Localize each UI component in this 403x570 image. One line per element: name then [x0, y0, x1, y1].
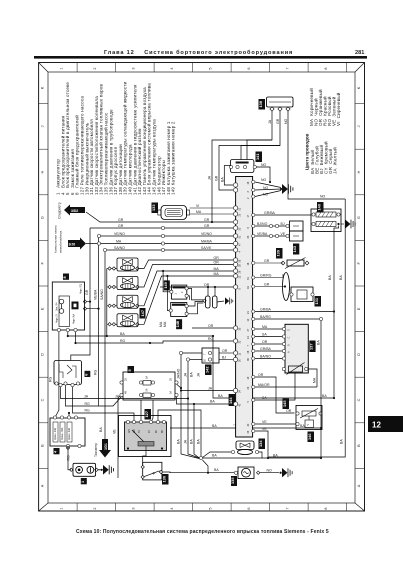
svg-text:3B: 3B — [170, 378, 173, 381]
svg-text:BA: BA — [300, 424, 305, 428]
svg-text:SA/VE: SA/VE — [201, 246, 212, 250]
fuel pump relay 127 — [119, 416, 172, 457]
svg-text:RG: RG — [208, 337, 214, 341]
arrow 3/D2 to speedometer — [64, 205, 85, 216]
svg-text:GR/BA: GR/BA — [264, 211, 276, 215]
svg-text:140: 140 — [317, 204, 322, 211]
svg-text:NO: NO — [261, 163, 267, 167]
label 144 — [229, 394, 236, 406]
svg-text:W1: W1 — [128, 429, 131, 433]
svg-text:GR: GR — [276, 118, 280, 124]
svg-text:E: E — [41, 307, 45, 310]
svg-text:B: B — [41, 444, 45, 447]
svg-text:BA: BA — [340, 439, 344, 444]
frame coordinate numbers bottom — [60, 507, 329, 509]
node BA relay row — [235, 426, 238, 429]
svg-text:NO: NO — [320, 194, 326, 198]
vertical wire SA/NO — [104, 252, 106, 413]
svg-text:RG: RG — [66, 455, 70, 461]
svg-text:C: C — [288, 337, 291, 339]
label 143 — [293, 244, 299, 255]
injector bus to BA wire — [106, 324, 108, 336]
svg-text:JA: JA — [84, 394, 89, 398]
svg-text:GR: GR — [118, 218, 124, 222]
svg-text:MA/BA: MA/BA — [201, 239, 213, 243]
svg-text:OR: OR — [214, 256, 220, 260]
label injectors 147 — [140, 308, 146, 319]
vertical wire BA fuse5 lower — [194, 404, 200, 459]
svg-text:GR: GR — [264, 259, 270, 263]
label 137 — [309, 341, 315, 353]
wire from fuse box 8 to battery fuse box right — [68, 413, 70, 418]
svg-text:RG: RG — [120, 339, 126, 343]
svg-text:MA: MA — [214, 267, 220, 271]
node SA/NO start — [103, 248, 106, 251]
svg-text:2: 2 — [93, 67, 97, 69]
svg-text:D: D — [357, 353, 361, 356]
svg-text:Черн./7Q: Черн./7Q — [80, 284, 83, 294]
wire OR coil feed — [160, 286, 234, 288]
wire BA bus — [68, 332, 213, 336]
wire MA injector 4 — [139, 276, 234, 324]
wire GR/BA east — [255, 311, 334, 313]
main ground symbol — [280, 188, 282, 190]
svg-text:RG: RG — [49, 376, 53, 382]
svg-text:134: 134 — [258, 440, 263, 447]
svg-text:1: 1 — [60, 507, 64, 509]
label 145 — [283, 399, 290, 410]
fuse box 8 — [52, 282, 84, 330]
svg-text:H: H — [357, 170, 361, 173]
svg-text:JA: JA — [184, 439, 188, 444]
component legend list (rotated) — [56, 81, 176, 195]
power fuse box 4 — [50, 418, 85, 446]
suppression capacitor bars — [206, 296, 225, 308]
svg-text:139: 139 — [276, 249, 281, 256]
svg-text:GR/BA: GR/BA — [260, 307, 272, 311]
svg-text:C: C — [357, 398, 361, 401]
wire colour legend column 2 (MA..VI) — [308, 88, 341, 126]
svg-text:GR/RG: GR/RG — [260, 273, 272, 277]
ECU right pins — [252, 180, 255, 432]
air temperature sensor 145 — [296, 406, 322, 430]
label 149 — [164, 280, 170, 290]
inline connector pairs — [161, 226, 164, 229]
coil ground — [225, 297, 233, 304]
svg-text:JA: JA — [184, 372, 188, 377]
svg-text:GR: GR — [204, 218, 210, 222]
label 4 — [54, 448, 60, 454]
AC control panel 143 — [290, 221, 304, 241]
throttle body wires — [255, 329, 317, 413]
wire junction to purge valve — [203, 452, 232, 458]
svg-text:W2: W2 — [133, 429, 136, 433]
wire SA/NO — [107, 249, 234, 251]
frame right strip ticks — [355, 104, 365, 469]
svg-text:131: 131 — [314, 297, 319, 304]
wire BA to pin 43 — [177, 397, 236, 404]
svg-text:G: G — [41, 216, 45, 219]
frame coordinate letters left — [41, 86, 45, 487]
ignition coil 148b — [171, 303, 187, 317]
coolant temperature sensor 139 — [255, 258, 309, 269]
ignition coil 149 — [171, 285, 186, 299]
wire relay output to inertia switch — [143, 453, 146, 466]
svg-text:MA/OR: MA/OR — [258, 383, 270, 387]
svg-text:145: 145 — [282, 400, 287, 407]
label 140 — [317, 202, 324, 213]
svg-text:VE: VE — [262, 420, 267, 424]
svg-text:JA/NO: JA/NO — [177, 368, 181, 379]
svg-text:3/D1: 3/D1 — [104, 443, 108, 450]
svg-text:NO: NO — [284, 118, 288, 124]
power steering pressure switch 141 — [230, 160, 254, 173]
frame coordinate letters right — [357, 86, 361, 487]
svg-text:VE: VE — [281, 232, 286, 236]
vehicle speed sensor 131 — [255, 273, 313, 302]
wire MA from immobilizer lamp — [86, 243, 234, 245]
svg-text:127: 127 — [144, 411, 149, 418]
injector 1 — [107, 258, 139, 271]
svg-text:BA: BA — [120, 332, 125, 336]
injector 3 — [107, 295, 139, 308]
svg-text:JA: JA — [115, 394, 120, 398]
knock sensor wires — [212, 111, 345, 223]
svg-text:6: 6 — [247, 67, 251, 69]
label 8 — [63, 274, 69, 280]
frame left strip ticks — [39, 104, 48, 469]
svg-text:142: 142 — [205, 366, 210, 373]
injector 2 — [107, 277, 139, 290]
svg-text:BA: BA — [221, 177, 225, 182]
svg-text:D: D — [288, 329, 291, 331]
svg-text:Контрольная лампа: Контрольная лампа — [54, 225, 58, 253]
ignition switch 6 — [54, 361, 82, 385]
svg-text:3/D2: 3/D2 — [71, 209, 78, 213]
svg-text:281: 281 — [355, 50, 364, 56]
svg-text:Схема 10: Полупоследовательная: Схема 10: Полупоследовательная система р… — [76, 529, 329, 535]
svg-text:BA: BA — [212, 454, 217, 458]
svg-text:NO: NO — [263, 186, 269, 190]
svg-text:B: B — [357, 444, 361, 447]
drawing frame outer border — [39, 63, 365, 512]
NO ground fan wires — [255, 182, 281, 197]
svg-text:SA: SA — [262, 332, 267, 336]
svg-text:Спидометр: Спидометр — [58, 202, 62, 219]
label 130 — [162, 474, 169, 485]
wire BA junction east — [203, 457, 322, 459]
svg-text:G: G — [357, 216, 361, 219]
svg-text:MA: MA — [159, 321, 163, 327]
pump NO ground — [260, 472, 279, 474]
svg-text:A: A — [357, 484, 361, 487]
svg-text:JA: JA — [208, 386, 213, 390]
svg-text:RG: RG — [93, 369, 97, 375]
wire BA relay row — [170, 427, 321, 429]
svg-text:Глава 12 Система бортового: Глава 12 Система бортового электрооборуд… — [104, 49, 293, 56]
svg-text:OR: OR — [208, 324, 214, 328]
svg-text:1: 1 — [60, 67, 64, 69]
wire GR to speedometer — [86, 212, 234, 222]
svg-text:SA/NO: SA/NO — [114, 246, 125, 250]
svg-text:NO: NO — [261, 178, 267, 182]
coil feed verticals MA — [163, 271, 203, 314]
svg-text:C: C — [41, 398, 45, 401]
svg-text:3: 3 — [132, 67, 136, 69]
svg-text:иммобилайзера: иммобилайзера — [59, 230, 63, 253]
svg-text:JA: JA — [208, 175, 212, 180]
label 1 — [81, 478, 87, 484]
svg-text:MA: MA — [116, 239, 122, 243]
wire labels left fan — [84, 218, 327, 472]
wire RG ignition — [66, 385, 122, 406]
svg-text:JA: JA — [268, 119, 272, 124]
wire junction to pump branch — [203, 460, 209, 473]
svg-text:5A: 5A — [146, 388, 149, 391]
label 146 capacitor — [308, 432, 315, 443]
label 139 — [276, 248, 283, 259]
battery 1 — [70, 463, 101, 476]
wire OR injector 2 — [139, 265, 234, 288]
svg-text:OR: OR — [286, 409, 292, 413]
svg-text:BA: BA — [328, 275, 332, 280]
svg-text:D: D — [41, 353, 45, 356]
svg-text:J: J — [41, 125, 45, 127]
wire GR/BA to oxygen sensor — [255, 214, 311, 216]
wire BA tach drop — [104, 413, 106, 439]
svg-text:4B: 4B — [125, 391, 128, 394]
svg-text:RG: RG — [85, 402, 91, 406]
svg-text:BA: BA — [177, 439, 181, 444]
throttle body 137 — [285, 324, 308, 373]
arrow 3/J6 from immobilizer lamp — [68, 238, 86, 250]
rotated vertical wire labels — [49, 289, 201, 444]
svg-text:BA/RG: BA/RG — [260, 315, 271, 319]
wire JA to pin 34 — [181, 390, 234, 392]
svg-text:BA: BA — [339, 275, 343, 280]
svg-text:VE/NO: VE/NO — [114, 232, 125, 236]
wire fuse5 to relay pin b — [151, 400, 153, 422]
wire fuse5 to relay pin a — [140, 400, 142, 422]
svg-text:MA: MA — [196, 210, 202, 214]
svg-text:4: 4 — [170, 67, 174, 69]
label 127 — [145, 409, 152, 420]
svg-text:OR: OR — [214, 260, 220, 264]
frame bottom strip ticks — [77, 503, 347, 511]
svg-text:Черн./АА: Черн./АА — [73, 314, 76, 324]
header rule — [34, 56, 367, 59]
inertia switch 130 — [143, 462, 162, 480]
svg-text:BA: BA — [218, 394, 223, 398]
frame top strip ticks — [77, 63, 347, 73]
svg-text:BA: BA — [317, 340, 321, 345]
svg-text:5A: 5A — [170, 391, 173, 394]
svg-text:BA: BA — [210, 400, 215, 404]
right side long wires — [255, 199, 345, 458]
wire fuse4 to battery — [68, 448, 71, 470]
label 134 — [259, 439, 266, 450]
svg-text:146: 146 — [307, 433, 312, 440]
svg-text:5: 5 — [209, 67, 213, 69]
svg-text:GR: GR — [204, 224, 210, 228]
wire VE lower — [255, 431, 268, 458]
svg-text:OR: OR — [262, 340, 268, 344]
crankshaft sensor connector 133 — [158, 206, 234, 220]
svg-text:5A: 5A — [146, 376, 149, 379]
svg-text:BA: BA — [322, 394, 327, 398]
svg-text:BA: BA — [190, 372, 194, 377]
wire OR injector 1 — [139, 260, 234, 269]
svg-text:H: H — [41, 170, 45, 173]
wire BA long horizontal — [213, 336, 334, 398]
svg-text:6: 6 — [247, 507, 251, 509]
svg-text:BJ: BJ — [222, 355, 226, 359]
svg-text:135: 135 — [230, 477, 235, 484]
svg-text:J: J — [357, 125, 361, 127]
oxygen sensor ground — [345, 219, 355, 228]
svg-text:VE: VE — [113, 429, 117, 434]
svg-text:VI: VI — [196, 204, 199, 208]
svg-text:Красн. 30A: Красн. 30A — [54, 427, 57, 440]
svg-text:JA: JA — [197, 372, 201, 377]
svg-text:8: 8 — [324, 507, 328, 509]
capacitor feed wires — [207, 287, 209, 296]
svg-text:Черн./Л: Черн./Л — [56, 314, 59, 323]
svg-text:2: 2 — [93, 507, 97, 509]
svg-text:BJ: BJ — [281, 222, 285, 226]
knock sensor 138 — [267, 97, 294, 111]
svg-text:VI Сиреневый: VI Сиреневый — [335, 92, 341, 126]
svg-text:149 Катушка зажигания номер 2: 149 Катушка зажигания номер 2 — [171, 121, 176, 195]
svg-text:Зел. R4: Зел. R4 — [56, 302, 59, 311]
svg-text:147: 147 — [140, 310, 145, 317]
svg-text:Зелен. 30A: Зелен. 30A — [61, 427, 64, 440]
label 142 — [205, 365, 212, 376]
arrow 3/D1 to tachometer — [99, 439, 111, 458]
svg-text:MA: MA — [313, 377, 317, 383]
ECU left pins — [233, 183, 237, 406]
label 6 — [85, 371, 91, 377]
svg-text:148: 148 — [175, 320, 180, 327]
svg-text:VE: VE — [262, 427, 267, 431]
svg-text:2B: 2B — [125, 378, 128, 381]
node VE/NO start — [97, 234, 100, 237]
svg-text:GR: GR — [215, 175, 219, 181]
injector ground bus line — [106, 269, 108, 325]
svg-text:K: K — [41, 86, 45, 89]
svg-text:138: 138 — [258, 100, 263, 107]
svg-text:3/J6: 3/J6 — [69, 242, 76, 246]
svg-text:BJ/NO: BJ/NO — [257, 222, 268, 226]
svg-text:MA: MA — [163, 321, 167, 327]
wire MA injector 3 — [139, 271, 234, 306]
svg-text:A: A — [41, 484, 45, 487]
wire VE down from fuse5 — [118, 395, 121, 478]
label 148 — [176, 319, 182, 329]
vertical wire VE/BA — [98, 238, 100, 406]
label 135 — [231, 476, 237, 486]
svg-text:3: 3 — [132, 507, 136, 509]
wire RG ignition to relay — [73, 387, 135, 422]
svg-text:Цвета проводов: Цвета проводов — [305, 133, 310, 170]
svg-text:BA: BA — [212, 424, 217, 428]
svg-text:144: 144 — [228, 397, 233, 404]
svg-text:BA: BA — [197, 439, 201, 444]
svg-text:NO: NO — [263, 192, 269, 196]
diagnostic socket 142 — [202, 348, 234, 363]
svg-text:137: 137 — [309, 344, 314, 351]
svg-text:8: 8 — [324, 67, 328, 69]
purge valve 134 — [236, 441, 254, 455]
svg-text:GR: GR — [85, 289, 89, 295]
svg-text:Красн. 30A: Красн. 30A — [68, 427, 71, 440]
svg-text:130: 130 — [162, 476, 167, 483]
injector 4 — [107, 314, 139, 327]
svg-text:7: 7 — [286, 507, 290, 509]
vertical wire GR — [71, 228, 90, 361]
svg-text:4: 4 — [170, 507, 174, 509]
vertical BA wire long — [268, 199, 345, 457]
oxygen sensor 140 — [311, 209, 344, 232]
AC control panel 143 wires — [255, 226, 286, 236]
frame corner bevels — [39, 63, 365, 512]
ECU left pin numbers — [239, 207, 242, 406]
chapter thumb tab 12 — [368, 416, 403, 432]
svg-text:7: 7 — [286, 67, 290, 69]
label 138 — [259, 99, 266, 110]
ECU 144 injection control unit — [236, 177, 253, 438]
wire RG fuse to pin 32 — [76, 332, 234, 343]
svg-text:BA/NO: BA/NO — [260, 354, 271, 358]
svg-text:VE/BA: VE/BA — [257, 232, 268, 236]
fuse box 5 — [123, 372, 175, 400]
svg-text:VE/BA: VE/BA — [94, 289, 98, 300]
vertical wire JA — [188, 360, 200, 459]
svg-text:141: 141 — [255, 153, 260, 160]
svg-text:NO: NO — [267, 468, 273, 472]
wire inertia switch to pump — [163, 471, 234, 474]
label 5 — [128, 366, 135, 373]
svg-text:5: 5 — [209, 507, 213, 509]
svg-text:BA: BA — [99, 427, 103, 432]
svg-text:BA: BA — [190, 439, 194, 444]
node junction bottom — [199, 456, 202, 459]
svg-text:GR/BA: GR/BA — [260, 347, 272, 351]
svg-text:OR: OR — [222, 349, 228, 353]
svg-text:RG: RG — [85, 409, 91, 413]
vertical BA wire — [320, 319, 322, 458]
svg-text:E: E — [357, 307, 361, 310]
svg-text:Тахометр: Тахометр — [94, 443, 98, 457]
wire relay to vertical bus — [158, 410, 201, 457]
wire NO from 141 — [224, 165, 270, 185]
svg-text:MA: MA — [262, 325, 268, 329]
wire VE/NO — [101, 235, 234, 237]
ECU right pin numbers — [247, 181, 250, 433]
svg-text:143: 143 — [292, 245, 297, 252]
svg-text:SA/NO: SA/NO — [100, 289, 104, 300]
frame coordinate numbers top — [60, 67, 329, 69]
throttle position sensor — [287, 363, 305, 375]
wire JA ignition to ECU — [61, 387, 189, 399]
svg-text:133: 133 — [151, 204, 156, 211]
fuel pump 135 — [238, 467, 254, 479]
svg-text:BA: BA — [214, 468, 219, 472]
wire BA/RG east — [255, 318, 321, 320]
svg-text:GR: GR — [118, 224, 124, 228]
vertical wire BA fuse5 — [181, 353, 202, 459]
svg-text:JA Желтый: JA Желтый — [332, 147, 338, 174]
